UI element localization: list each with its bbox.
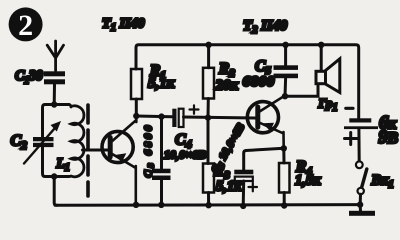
transistor T1 [102, 116, 136, 205]
capacitor C3 [152, 169, 171, 180]
wire rail to R2 [207, 45, 210, 68]
wire C1 to tank top [53, 84, 56, 104]
junction node C3 tap [158, 113, 164, 119]
capacitor C1 [44, 71, 65, 84]
polarity plus of C6 [249, 183, 258, 192]
wire emitter node to R4 [282, 148, 285, 163]
svg-text:5,1к: 5,1к [148, 76, 175, 92]
battery 6k plates [344, 118, 378, 129]
wire C4 to T2 base [184, 117, 257, 118]
ferrite core dashed line [86, 105, 90, 196]
wire switch to rail [359, 194, 362, 204]
wire R3 to ground rail [207, 193, 210, 206]
svg-text:1,5к: 1,5к [295, 173, 321, 189]
capacitor C5 [274, 65, 299, 78]
wire C6 to ground rail [242, 181, 246, 206]
junction node R4 at rail [281, 202, 287, 208]
switch Vk1 top contact [356, 161, 363, 168]
junction node C5 at top rail [282, 42, 288, 48]
wire R4 to ground rail [283, 193, 286, 206]
junction node tank bottom [51, 173, 57, 179]
loudspeaker Gr1 [316, 59, 340, 93]
svg-text:С130: С130 [15, 68, 43, 87]
junction node T2 base divider [205, 114, 211, 120]
variable capacitor C2 plates [33, 137, 54, 147]
wire R1 bottom to collector node [135, 99, 138, 116]
transistor T2 [247, 96, 284, 149]
junction node C3 at rail [158, 202, 164, 208]
svg-text:Т2 П40: Т2 П40 [243, 18, 288, 36]
battery plus sign [345, 133, 358, 145]
junction node tank top [51, 101, 57, 107]
wire collector node to speaker bottom [285, 85, 318, 96]
junction node T2 emitter [281, 145, 287, 151]
junction node T1 emitter at rail [133, 202, 139, 208]
wire battery to switch [357, 129, 360, 161]
chassis ground bar [359, 205, 362, 211]
junction node T1 collector [133, 113, 139, 119]
junction node switch at rail [357, 201, 363, 207]
antenna [47, 41, 63, 71]
wire collector node to C4 [136, 115, 172, 119]
variable capacitor C2 arrow [24, 125, 58, 164]
svg-text:20к: 20к [215, 78, 239, 94]
svg-text:Т1 П40: Т1 П40 [102, 17, 144, 34]
resistor R4 [279, 163, 290, 193]
svg-text:10,0×6В: 10,0×6В [164, 150, 206, 162]
inductor L1 [69, 105, 84, 177]
junction node R3 at rail [205, 202, 211, 208]
svg-text:2: 2 [18, 9, 33, 42]
T2 emitter arrowhead [263, 123, 274, 131]
wire T1 base to coil tap [83, 149, 108, 152]
wire tank loop frame [43, 105, 70, 177]
resistor R3 [203, 164, 214, 193]
figure number badge 2 [9, 7, 43, 42]
resistor R1 [131, 69, 142, 99]
wire bottom ground rail [55, 203, 360, 207]
wire T2 emitter to C6 [244, 148, 284, 170]
wire top supply rail [136, 45, 359, 118]
T1 emitter arrowhead [115, 153, 127, 162]
svg-text:6800: 6800 [243, 73, 275, 90]
wire tank bottom to ground rail [54, 177, 57, 206]
electrolytic capacitor C6 [234, 170, 253, 181]
switch Vk1 bottom contact [358, 188, 364, 194]
battery minus sign [346, 107, 353, 110]
polarity plus of C4 [190, 105, 199, 114]
junction node C6 at rail [240, 203, 246, 209]
svg-text:9В: 9В [379, 128, 399, 148]
wire R2 to R3 [207, 99, 210, 164]
electrolytic capacitor C4 [172, 109, 183, 127]
wire rail to speaker [320, 45, 323, 71]
wire down to C3 [160, 117, 163, 169]
svg-text:С3 6800: С3 6800 [143, 123, 156, 178]
junction node speaker at top rail [318, 42, 324, 48]
junction node T2 collector [282, 93, 288, 99]
wire C3 to ground rail [160, 180, 163, 205]
junction node R2 at top rail [205, 42, 211, 48]
resistor R2 [203, 68, 214, 99]
wire rail to C5 to collector node [284, 45, 288, 96]
switch Vk1 lever [362, 169, 367, 188]
